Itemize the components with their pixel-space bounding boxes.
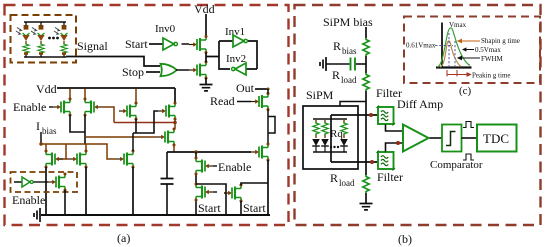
wire P1-P2 drain link: [70, 115, 85, 144]
wire to ground: [365, 193, 367, 203]
curve green pulse: [437, 28, 470, 67]
wire mid node: [206, 53, 219, 63]
svg-text:0.61Vmax: 0.61Vmax: [406, 42, 436, 50]
svg-text:Signal: Signal: [77, 39, 108, 53]
wire into enable inverter: [14, 181, 22, 183]
transistor stop NMOS: [189, 61, 208, 80]
transistor pass gate: [48, 173, 67, 192]
ground (Rload2): [360, 204, 373, 210]
svg-text:Rq: Rq: [330, 128, 343, 140]
panel (b) dashed border: [295, 5, 541, 225]
photon arrows cell2: [31, 28, 37, 35]
svg-text:(a): (a): [117, 231, 130, 245]
svg-text:load: load: [341, 75, 357, 85]
svg-text:Read: Read: [210, 94, 235, 108]
wire cell top bus: [313, 118, 347, 120]
wire amp to comparator: [430, 137, 443, 139]
wire N1 source down: [45, 167, 47, 215]
dots ellipsis: [48, 37, 51, 40]
wire rail corner to P4: [174, 88, 176, 103]
node dot amp input: [396, 141, 400, 145]
transistor start2: [224, 184, 243, 203]
wire between resistors: [365, 56, 367, 73]
dots ellipsis cells: [330, 146, 332, 148]
transistor N1: [45, 150, 64, 169]
resistor Rload1: [363, 73, 369, 91]
wire N2 source down: [85, 167, 87, 215]
transistor start PMOS: [189, 35, 208, 54]
wire out column: [268, 89, 275, 144]
svg-text:Vdd: Vdd: [194, 2, 215, 16]
wire red bias bus: [114, 122, 175, 124]
capacitor C1: [161, 179, 174, 185]
wire right column down: [267, 160, 269, 215]
inverter Inv2: [232, 63, 246, 75]
op-amp diff amp: [403, 125, 429, 152]
transistor enable N (mirrored): [195, 157, 214, 176]
node dot filter1 tap: [369, 113, 373, 117]
cell Rq2: [321, 119, 329, 152]
comparator hysteresis symbol: [446, 132, 456, 146]
svg-text:I: I: [36, 119, 40, 133]
photon arrows cell1: [16, 28, 22, 35]
wire Enable to P1 gate: [49, 106, 53, 108]
plot y-axis: [441, 23, 443, 69]
wire Signal to OR gate: [66, 57, 160, 67]
wire rail drop P3: [135, 89, 137, 105]
svg-text:R: R: [332, 68, 340, 82]
inverter Inv1: [233, 35, 247, 47]
SiPM box: [303, 106, 358, 169]
cell Rq3: [340, 119, 348, 152]
svg-text:Enable: Enable: [13, 100, 46, 114]
wire Inv0 to PMOS gate: [182, 43, 190, 45]
wire Stop to OR gate: [146, 71, 160, 73]
dashed marker v2: [454, 41, 456, 67]
panel (a) dashed border: [5, 5, 289, 225]
wire gnd to cap: [326, 63, 350, 65]
wire Ibias down: [40, 132, 42, 144]
svg-text:R: R: [333, 39, 341, 53]
TDC box: [477, 125, 517, 152]
wire rail drop P1: [69, 89, 71, 100]
wire brown bus A to P5 gate: [85, 136, 157, 138]
wire U link: [196, 184, 226, 215]
node dot filter2 tap: [370, 160, 374, 164]
svg-text:Enable: Enable: [12, 193, 45, 207]
svg-text:Inv0: Inv0: [155, 23, 176, 35]
wire comparator to TDC: [462, 137, 478, 139]
svg-text:R: R: [330, 171, 338, 185]
microcell array bottom rail: [24, 56, 66, 58]
pulse glyph bottom: [463, 154, 474, 160]
microcell D2: [37, 22, 44, 57]
wire OR out to NMOS gate: [176, 69, 189, 71]
svg-text:SiPM bias: SiPM bias: [323, 15, 373, 29]
wire inner frame to filters: [331, 115, 378, 162]
svg-text:Shapin g time: Shapin g time: [481, 37, 520, 45]
wire filter1 out: [386, 125, 404, 132]
svg-text:Filter: Filter: [377, 170, 403, 184]
wire Vdd down: [205, 14, 207, 37]
svg-text:SiPM: SiPM: [306, 88, 334, 102]
wire start2 gate: [224, 192, 226, 194]
microcell D3: [60, 22, 67, 57]
svg-text:Vdd: Vdd: [36, 82, 57, 96]
svg-text:TDC: TDC: [483, 131, 509, 146]
wire P5 drain to row wire: [173, 145, 175, 152]
transistor P2 (mirrored): [84, 98, 103, 117]
svg-text:bias: bias: [342, 46, 357, 56]
wire NMOS to ground: [205, 78, 207, 84]
wire N2 drain up: [85, 144, 87, 151]
svg-text:Vmax: Vmax: [449, 21, 467, 29]
wire brown bus B to N3 gate: [41, 144, 116, 159]
node dot red bus: [173, 121, 177, 125]
microcell D1: [22, 22, 29, 57]
wire latch column mid: [195, 152, 197, 215]
svg-text:Diff Amp: Diff Amp: [397, 97, 443, 111]
inset (c) dashed box: [404, 17, 540, 84]
svg-text:Inv2: Inv2: [226, 53, 246, 65]
transistor T2 right: [251, 143, 270, 162]
wire enable gate stub: [213, 165, 217, 167]
SiPM signal source dashed box: [11, 15, 77, 63]
svg-text:bias: bias: [42, 126, 57, 136]
transistor read PMOS: [251, 92, 270, 111]
enable box dashed: [11, 172, 78, 192]
resistor Rload2: [363, 175, 369, 193]
arrow shaping time: [458, 39, 480, 42]
ground (cap): [320, 57, 326, 71]
cell Rq1: [312, 119, 320, 152]
transistor start1 (mirrored): [195, 183, 214, 202]
capacitor Cb: [351, 58, 356, 71]
wire inv to pass gate: [34, 181, 49, 183]
wire cap to column: [356, 63, 366, 65]
ground (rail left): [34, 208, 40, 222]
svg-text:Start: Start: [243, 201, 266, 215]
wire N1 drain up: [45, 144, 47, 151]
photon arrows cell3: [54, 28, 60, 35]
node dot Ibias: [39, 142, 42, 145]
wire N3 drain up: [132, 133, 134, 151]
filter box 2: [377, 151, 396, 171]
wire N3 source down: [132, 167, 134, 215]
svg-text:Enable: Enable: [218, 160, 251, 174]
transistor N2: [69, 150, 88, 169]
node dot out corner: [267, 88, 270, 91]
transistor P5: [157, 128, 176, 147]
peaking time ticks: [447, 70, 457, 77]
ground (latch): [200, 85, 213, 91]
pulse glyph top: [463, 122, 474, 128]
dashed marker 0.61: [435, 45, 453, 47]
wire start2 top: [241, 183, 268, 185]
node dot row: [194, 150, 198, 154]
wire rail drop P2: [84, 89, 86, 100]
wire Vdd rail: [57, 87, 175, 89]
curve tan pulse: [440, 41, 461, 67]
wire column mid: [365, 91, 367, 175]
svg-text:load: load: [339, 178, 355, 188]
svg-text:Start: Start: [198, 201, 221, 215]
svg-text:FWHM: FWHM: [481, 55, 504, 63]
wire start1 gate stub: [213, 191, 217, 193]
wire pass gate down: [64, 190, 66, 215]
transistor P3: [119, 102, 138, 121]
dashed marker v1: [448, 33, 450, 67]
comparator box: [442, 125, 462, 152]
svg-text:Stop: Stop: [122, 65, 144, 79]
inverter Inv0: [163, 38, 177, 50]
transistor P4: [158, 102, 177, 121]
wire cell bottom bus: [313, 151, 347, 153]
wire Read to gate: [237, 101, 251, 103]
resistor Rbias: [363, 38, 369, 56]
wire start2 down: [240, 201, 242, 215]
filter box 1: [377, 106, 396, 126]
wire bottom rail: [41, 214, 270, 216]
plot x-axis: [436, 66, 472, 68]
transistor N3: [116, 150, 135, 169]
wire box to column: [340, 102, 366, 107]
wire P4 to P5: [174, 119, 176, 129]
svg-text:Comparator: Comparator: [430, 159, 483, 171]
svg-text:0.5Vmax: 0.5Vmax: [475, 46, 501, 54]
svg-text:(b): (b): [398, 232, 412, 246]
microcell array top rail: [24, 21, 66, 23]
svg-text:(c): (c): [459, 85, 472, 97]
wire Out: [255, 88, 268, 90]
wire cap column: [166, 152, 168, 215]
svg-text:Out: Out: [236, 81, 255, 95]
wire latch row: [167, 151, 251, 153]
inverter enable: [22, 177, 30, 187]
transistor P1: [53, 98, 72, 117]
wire Start to Inv0: [149, 43, 163, 45]
wire filter2 out: [386, 143, 404, 152]
svg-text:Start: Start: [125, 37, 148, 51]
wire P3 drain step: [133, 111, 158, 133]
latch loop wires: [219, 41, 257, 69]
arrow 0.5Vmax: [463, 48, 474, 51]
wire P2 gate to red bus: [102, 107, 114, 123]
arrow peaking time: [447, 73, 471, 76]
wire bias column top: [365, 27, 367, 38]
svg-text:Peakin g time: Peakin g time: [472, 72, 511, 80]
arrow FWHM: [458, 56, 480, 59]
OR gate: [161, 64, 177, 76]
